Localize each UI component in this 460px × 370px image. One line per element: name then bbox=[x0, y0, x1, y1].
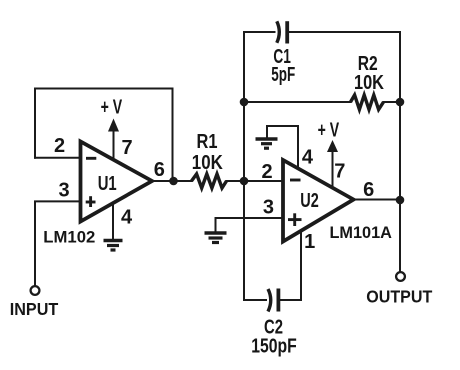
svg-text:6: 6 bbox=[363, 179, 374, 201]
svg-text:2: 2 bbox=[261, 161, 272, 183]
svg-text:3: 3 bbox=[58, 180, 69, 202]
svg-text:1: 1 bbox=[304, 231, 315, 253]
svg-text:3: 3 bbox=[263, 197, 274, 219]
svg-text:7: 7 bbox=[334, 161, 345, 183]
svg-text:R1: R1 bbox=[197, 131, 218, 153]
svg-text:10K: 10K bbox=[354, 72, 384, 94]
svg-text:LM102: LM102 bbox=[43, 228, 95, 247]
svg-text:5pF: 5pF bbox=[271, 64, 295, 86]
svg-text:6: 6 bbox=[154, 159, 165, 181]
svg-text:2: 2 bbox=[54, 135, 65, 157]
svg-text:+ V: + V bbox=[101, 97, 123, 119]
svg-text:4: 4 bbox=[302, 147, 314, 169]
svg-text:7: 7 bbox=[121, 137, 132, 159]
svg-text:10K: 10K bbox=[192, 152, 223, 174]
svg-text:LM101A: LM101A bbox=[329, 223, 392, 242]
svg-text:U1: U1 bbox=[98, 173, 117, 195]
svg-text:INPUT: INPUT bbox=[10, 299, 59, 319]
svg-text:4: 4 bbox=[121, 207, 133, 229]
svg-text:OUTPUT: OUTPUT bbox=[366, 286, 432, 306]
svg-text:+ V: + V bbox=[318, 120, 340, 142]
svg-text:U2: U2 bbox=[300, 190, 319, 212]
svg-text:150pF: 150pF bbox=[251, 336, 297, 358]
